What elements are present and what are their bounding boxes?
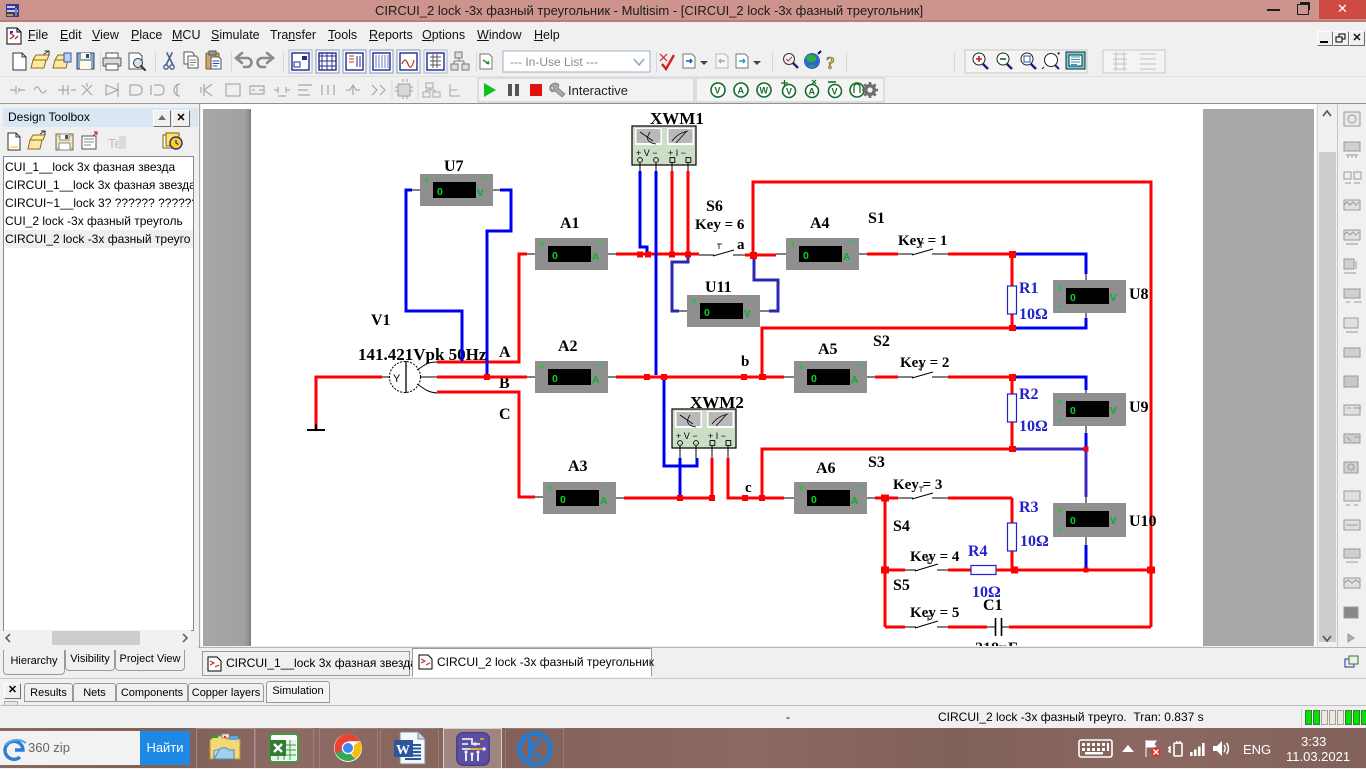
svg-text:Interactive: Interactive (568, 83, 628, 98)
svg-text:−: − (1057, 415, 1063, 426)
svg-text:0: 0 (1070, 405, 1076, 417)
svg-text:−: − (597, 237, 603, 248)
junction XWM2 V- tap on wire b (661, 374, 667, 380)
branch vertical c to S4 S5 (884, 498, 887, 627)
wire phase C (437, 392, 535, 497)
component toolbar (grayed) (10, 83, 385, 97)
ERC check (662, 55, 674, 69)
junction XWM1 V+ drop on wire a (645, 252, 651, 258)
svg-text:a: a (737, 237, 745, 253)
svg-text:V: V (1110, 406, 1117, 417)
svg-text:Key = 1: Key = 1 (898, 233, 947, 249)
svg-text:U8: U8 (1129, 286, 1149, 303)
svg-text:10Ω: 10Ω (1019, 418, 1048, 435)
tabbar right icon (1344, 655, 1360, 671)
XWM1 V+ blue drop (640, 171, 647, 253)
In-Use List combo (503, 51, 650, 72)
svg-text:A4: A4 (810, 215, 830, 232)
navy wire U11 right to node a (754, 257, 778, 311)
pause button (508, 84, 512, 96)
svg-text:0: 0 (811, 373, 817, 385)
voltmeter U7 (412, 173, 500, 206)
XWM2 wattmeter (672, 409, 736, 458)
wrench + Interactive (550, 83, 565, 97)
junction R3 bottom R4 right (1011, 567, 1018, 574)
XWM1 V- blue drop to b (655, 171, 658, 375)
svg-text:0: 0 (1070, 515, 1076, 527)
svg-text:+: + (790, 239, 796, 250)
svg-text:A: A (851, 375, 858, 386)
svg-text:Y: Y (393, 373, 401, 385)
blue wire U10 bottom (1085, 545, 1088, 570)
redo (258, 58, 273, 67)
junction R2 loop drop on wire c (759, 495, 765, 501)
ammeter A1 (527, 237, 616, 270)
svg-text:A1: A1 (560, 215, 580, 232)
find magnifier (784, 54, 795, 65)
wire S3 to R3 (948, 497, 1012, 500)
junction branch at S4 row (881, 567, 889, 574)
toggle buttons group (289, 50, 492, 73)
svg-text:V1: V1 (371, 312, 391, 329)
print preview (129, 53, 142, 69)
navy wire R2 bottom to U10 top (1012, 449, 1086, 497)
resistor R2 (1008, 377, 1017, 450)
panel/canvas divider (199, 104, 200, 647)
svg-text:V: V (477, 188, 484, 199)
svg-text:218nF: 218nF (975, 640, 1018, 646)
svg-text:−: − (605, 481, 611, 492)
stop button (530, 84, 542, 96)
zoom group (965, 50, 1087, 73)
voltmeter U10 (1053, 497, 1126, 545)
print (103, 58, 121, 66)
svg-text:Key = 4: Key = 4 (910, 549, 960, 565)
junction XWM1 V+ on wire a (637, 252, 643, 258)
XWM1 I+ red drop (671, 171, 674, 254)
wire S5 to C1 (948, 626, 987, 629)
switch S2 (898, 372, 948, 378)
new (13, 53, 26, 70)
svg-text:V: V (1110, 516, 1117, 527)
blue wire U8 bottom to R1 bottom (1012, 318, 1086, 328)
junction right loop at S4 row (1147, 567, 1155, 574)
svg-text:0: 0 (552, 373, 558, 385)
U7 blue wire left (406, 190, 462, 361)
blue wire to U9 top (1011, 377, 1086, 390)
resistor R4 (971, 566, 996, 575)
svg-text:S1: S1 (868, 210, 885, 227)
svg-text:R1: R1 (1019, 280, 1039, 297)
XWM1 wattmeter (632, 126, 696, 172)
XWM1 I- red drop (687, 171, 690, 254)
svg-text:?: ? (826, 53, 835, 73)
globe (804, 53, 820, 69)
status bar (0, 705, 1366, 729)
svg-text:+: + (1057, 283, 1063, 294)
svg-text:U11: U11 (705, 279, 732, 296)
svg-text:b: b (741, 354, 749, 370)
svg-text:R3: R3 (1019, 499, 1039, 516)
svg-text:−: − (1057, 525, 1063, 536)
svg-text:U7: U7 (444, 158, 464, 175)
svg-text:+: + (539, 362, 545, 373)
blue wire b to XWM2 V- (664, 378, 697, 466)
gray pair group (1103, 50, 1165, 73)
svg-text:+ I −: + I − (708, 431, 726, 441)
junction XWM1 I- on wire a (685, 252, 691, 258)
junction XWM2 V+ on wire c (677, 495, 683, 501)
svg-text:−: − (856, 481, 862, 492)
svg-text:U10: U10 (1129, 513, 1157, 530)
navy wire I- to U11 left (672, 256, 688, 311)
top loop wire (753, 182, 1151, 627)
wire A5 out (875, 376, 898, 379)
junction R2 top on wire b (1009, 374, 1016, 381)
doc tab 1 (202, 651, 410, 676)
svg-text:A2: A2 (558, 338, 578, 355)
svg-text:0: 0 (437, 186, 443, 198)
open sample (53, 55, 71, 68)
svg-text:+: + (691, 296, 697, 307)
red wire XWM2 I- to c (728, 458, 784, 498)
svg-text:+: + (547, 483, 553, 494)
svg-text:A: A (499, 344, 511, 361)
svg-text:--- In-Use List ---: --- In-Use List --- (510, 55, 598, 69)
MDI child buttons (1317, 31, 1333, 46)
wire S4 left (885, 569, 905, 572)
switch S3 (898, 493, 948, 499)
svg-text:−: − (749, 294, 755, 305)
svg-text:−: − (482, 173, 488, 184)
dtb bottom tabs (2, 650, 198, 676)
junction node a (750, 252, 757, 259)
svg-text:Key = 5: Key = 5 (910, 605, 959, 621)
wire phase A (437, 254, 527, 362)
wire R4 right to loop (996, 569, 1151, 572)
wire phase B (437, 376, 527, 379)
svg-text:V: V (786, 87, 792, 97)
schematic canvas (201, 104, 1316, 646)
junction XWM2 I+ on wire c (709, 495, 715, 501)
blue wire XWM2 V+ to c (679, 458, 682, 497)
right dock component toolbar (1337, 104, 1366, 677)
svg-text:A: A (843, 252, 850, 263)
document tab bar (198, 647, 1366, 678)
red wire R2 bottom left drop to c (762, 449, 1012, 498)
sheet left gray margin (203, 109, 251, 646)
svg-text:0: 0 (1070, 292, 1076, 304)
save (77, 53, 94, 69)
svg-text:A: A (592, 375, 599, 386)
resistor R3 (1008, 498, 1017, 570)
junction U10 bottom on S4 row (1084, 568, 1089, 573)
wire A1 out to S6 (616, 253, 699, 256)
svg-text:−: − (1057, 302, 1063, 313)
svg-text:0: 0 (552, 250, 558, 262)
wire: ground to V1 left (316, 377, 382, 429)
open (31, 55, 49, 68)
svg-text:0: 0 (811, 494, 817, 506)
svg-text:+: + (424, 175, 430, 186)
svg-text:A: A (851, 496, 858, 507)
junction R1 loop drop on wire b (759, 374, 766, 380)
junction XWM1 I+ on wire a (669, 252, 675, 258)
svg-text:0: 0 (560, 494, 566, 506)
svg-text:0: 0 (803, 250, 809, 262)
svg-text:+ V −: + V − (636, 148, 658, 158)
junction XWM1 V- on wire b (644, 374, 650, 380)
doc tab 2 active (412, 648, 652, 677)
toolbar row 2 (0, 77, 1366, 104)
svg-text:−: − (848, 237, 854, 248)
undo (237, 58, 252, 67)
svg-text:XWM2: XWM2 (690, 393, 744, 412)
switch S6 (699, 250, 745, 256)
svg-text:V: V (832, 87, 838, 97)
svg-text:+: + (539, 239, 545, 250)
window title bar (0, 0, 1366, 22)
svg-text:A3: A3 (568, 458, 588, 475)
svg-text:+: + (798, 362, 804, 373)
sheet right gray margin (1203, 109, 1314, 646)
junction S4 S5 branch on wire c (881, 495, 889, 502)
wire S4 to R4 (948, 569, 971, 572)
wire S2 to R2 (948, 376, 1012, 379)
wire S5 left (885, 626, 905, 629)
svg-text:R2: R2 (1019, 386, 1039, 403)
svg-text:S3: S3 (868, 454, 885, 471)
dtb header buttons (153, 110, 171, 127)
taskbar search box (0, 731, 140, 765)
cut (166, 53, 173, 65)
blue wire to U8 top (1011, 254, 1086, 274)
tray icons (1078, 739, 1114, 759)
menu bar (0, 22, 1366, 48)
ammeter A3 (535, 481, 624, 514)
dtb toolbar icons (0, 130, 198, 154)
ammeter A4 (776, 237, 867, 270)
wire A3 out (624, 497, 712, 500)
U7 blue wire right (487, 190, 511, 375)
svg-text:Key = 6: Key = 6 (695, 217, 745, 233)
node a wire (745, 254, 776, 257)
toolbar row 1 (0, 48, 1366, 77)
resistor R1 (1008, 254, 1017, 328)
svg-text:−: − (597, 360, 603, 371)
svg-text:c: c (745, 480, 752, 496)
spreadsheet view bar (0, 678, 1366, 706)
svg-text:W: W (396, 743, 410, 758)
svg-text:S4: S4 (893, 518, 910, 535)
svg-text:+: + (1057, 506, 1063, 517)
wire A6 out (875, 497, 898, 500)
taskbar (0, 728, 1366, 768)
copy (184, 52, 194, 64)
ammeter A5 (784, 360, 875, 393)
svg-text:R4: R4 (968, 543, 988, 560)
svg-text:U9: U9 (1129, 399, 1149, 416)
svg-text:S6: S6 (706, 198, 723, 215)
probe group (696, 78, 884, 102)
junction R2 bottom node (1009, 446, 1016, 452)
red wire XWM2 I+ to c (711, 458, 714, 498)
switch S4 (905, 564, 948, 571)
svg-text:XWM1: XWM1 (650, 109, 704, 128)
svg-text:W: W (760, 86, 769, 96)
svg-text:V: V (744, 309, 751, 320)
junction node b (741, 374, 747, 380)
graph xfer icons (683, 54, 708, 68)
junction U7 right on wire B (484, 374, 490, 380)
switch S5 (905, 621, 948, 628)
taskbar search button (140, 731, 190, 765)
transfer icon (480, 54, 492, 69)
svg-text:0: 0 (704, 307, 710, 319)
ground (307, 424, 325, 430)
svg-text:10Ω: 10Ω (1019, 306, 1048, 323)
svg-text:C: C (499, 406, 511, 423)
svg-text:A6: A6 (816, 460, 836, 477)
svg-text:+: + (798, 483, 804, 494)
left dock: Design Toolbox (0, 104, 198, 676)
svg-text:A5: A5 (818, 341, 838, 358)
capacitor C1 (987, 618, 1009, 636)
taskbar tiles (196, 728, 255, 769)
svg-text:S5: S5 (893, 577, 910, 594)
svg-text:A: A (738, 86, 745, 96)
switch S1 (898, 249, 948, 255)
junction R1 top on wire a (1009, 251, 1016, 258)
junction R1 bottom node (1009, 325, 1016, 331)
ammeter A2 (527, 360, 616, 393)
canvas vertical scrollbar (1317, 104, 1337, 646)
svg-text:10Ω: 10Ω (1020, 533, 1049, 550)
svg-text:Key = 2: Key = 2 (900, 355, 949, 371)
svg-text:A: A (592, 252, 599, 263)
play button (484, 83, 496, 97)
ammeter A6 (784, 481, 875, 514)
canvas top border (198, 103, 1366, 104)
wire A4 out (867, 253, 898, 256)
hierarchy icon (451, 52, 469, 70)
voltmeter U8 (vertical pins) (1053, 274, 1126, 318)
junction U9 bottom U10 top node (1084, 447, 1089, 452)
svg-text:S2: S2 (873, 333, 890, 350)
svg-text:Key = 3: Key = 3 (893, 477, 942, 493)
wire C1 to loop (1009, 626, 1151, 629)
svg-text:A: A (809, 87, 816, 97)
svg-text:V: V (1110, 293, 1117, 304)
svg-text:A: A (600, 496, 607, 507)
V1 three-phase source (382, 361, 437, 393)
blue wire U9 bottom (1085, 433, 1088, 449)
svg-text:+ I −: + I − (668, 148, 686, 158)
svg-text:C1: C1 (983, 597, 1003, 614)
wire B continue to A5 (616, 376, 784, 379)
red wire R1 bottom to left drop (762, 328, 1012, 377)
wire S1 to R1 (948, 253, 1012, 256)
voltmeter U11 (679, 294, 769, 327)
svg-text:+ V −: + V − (676, 431, 698, 441)
svg-text:−: − (856, 360, 862, 371)
junction node c (742, 495, 748, 501)
paste (206, 53, 219, 69)
svg-text:V: V (715, 86, 721, 96)
voltmeter U9 (1053, 390, 1126, 434)
svg-text:+: + (1057, 396, 1063, 407)
